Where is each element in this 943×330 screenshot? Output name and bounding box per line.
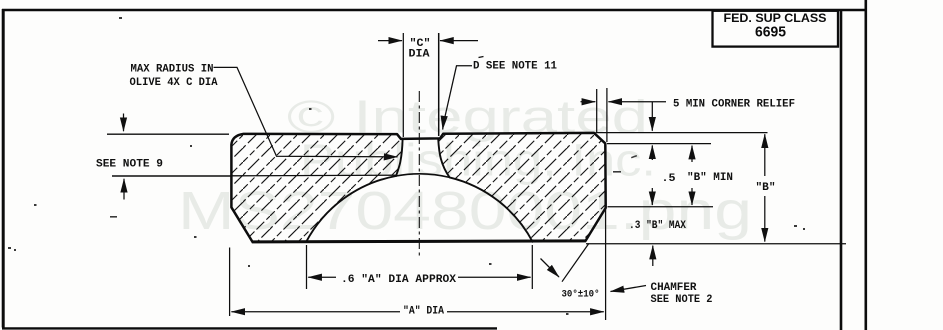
svg-text:OLIVE 4X C DIA: OLIVE 4X C DIA [130, 77, 218, 89]
dim C dia: right arrow [440, 40, 478, 42]
svg-text:30°±10°: 30°±10° [562, 289, 600, 301]
corner relief: left extension line [596, 89, 598, 132]
dome arc continuing under slot [396, 174, 450, 178]
dim .3 B max: lower up arrow below part [652, 246, 654, 266]
dim A dia: right extension line (part edge extended down) [605, 208, 607, 320]
part outline [231, 133, 605, 242]
leader D see note 11 [443, 66, 472, 130]
svg-text:FED. SUP CLASS: FED. SUP CLASS [724, 13, 827, 25]
dim .5 B min: up arrow at x=692 [691, 146, 693, 162]
svg-text:SEE NOTE 2: SEE NOTE 2 [651, 294, 713, 306]
dim B overall: vertical line with both arrows [764, 134, 766, 176]
top surface extension line right [596, 132, 768, 134]
dim .6 A dia: left arrow [308, 276, 336, 278]
chamfer angle: leader arrow [541, 259, 560, 278]
svg-text:6695: 6695 [755, 25, 786, 41]
see note 9: olive line extension [112, 175, 232, 177]
chamfer angle: extended chamfer line [562, 244, 589, 282]
sheet border: right vertical line 1 [840, 10, 843, 330]
dim .6 A dia: right arrow [458, 276, 531, 278]
svg-text:SEE NOTE 9: SEE NOTE 9 [96, 159, 163, 171]
corner relief depth: up arrow at x=652 [651, 145, 653, 160]
svg-text:.6 "A" DIA APPROX: .6 "A" DIA APPROX [341, 274, 456, 286]
svg-text:DIA: DIA [409, 49, 430, 61]
centerline (dash-dot) [418, 91, 420, 258]
svg-text:CHAMFER: CHAMFER [651, 282, 697, 294]
FED SUP CLASS title box [713, 11, 839, 47]
see note 9: top surface extension line [107, 133, 229, 135]
svg-text:5 MIN CORNER RELIEF: 5 MIN CORNER RELIEF [673, 99, 795, 111]
svg-text:"B" MIN: "B" MIN [687, 172, 733, 184]
see note 9: down arrow [123, 114, 125, 132]
svg-text:.3 "B" MAX: .3 "B" MAX [629, 220, 686, 232]
dome cavity and slot walls [306, 139, 533, 243]
olive flat line inside part [232, 174, 398, 177]
svg-text:"A" DIA: "A" DIA [403, 306, 444, 318]
scan speckles [8, 17, 805, 315]
dim .6 A dia: right extension line [531, 245, 533, 289]
section hatching of part [225, 128, 615, 248]
chamfer start extension line [608, 206, 714, 208]
corner relief: left arrow [581, 101, 596, 103]
overbar on D [479, 57, 484, 58]
sheet border: top line [2, 9, 866, 12]
dim C dia: left arrow [378, 40, 402, 42]
part bottom edge (thicker) [252, 241, 586, 242]
dim C dia: left extension line [402, 33, 404, 137]
chamfer note leader arrow [611, 286, 647, 292]
svg-text:.5: .5 [662, 173, 676, 185]
sheet border: right vertical line 2 [864, 0, 867, 330]
part bottom extension line right [586, 243, 846, 245]
sheet border: left line [2, 9, 5, 328]
dim C dia: right extension line [438, 33, 440, 136]
right edge top extension line [607, 143, 711, 145]
corner relief: right extension line (part edge extended up) [606, 88, 608, 142]
see note 9: up arrow [123, 179, 125, 200]
leader max radius in olive [214, 67, 398, 156]
svg-text:"B": "B" [756, 182, 776, 194]
svg-text:D SEE NOTE 11: D SEE NOTE 11 [473, 61, 557, 73]
dim A dia: left arrow [231, 311, 400, 313]
dim .5 B min: down arrow at x=692 [691, 188, 693, 205]
dim .3 B max: upper down arrow at x=652 [651, 188, 653, 205]
dim A dia: left extension line [229, 248, 231, 317]
dim A dia: right arrow [447, 311, 604, 313]
corner relief: right arrow with long tail [608, 101, 666, 103]
dim .6 A dia: left extension line [306, 245, 308, 289]
svg-text:MAX RADIUS IN: MAX RADIUS IN [131, 64, 214, 76]
corner relief: vertical drop with down arrow to top surface line [651, 102, 653, 131]
sheet border: bottom-left partial line [2, 327, 497, 329]
